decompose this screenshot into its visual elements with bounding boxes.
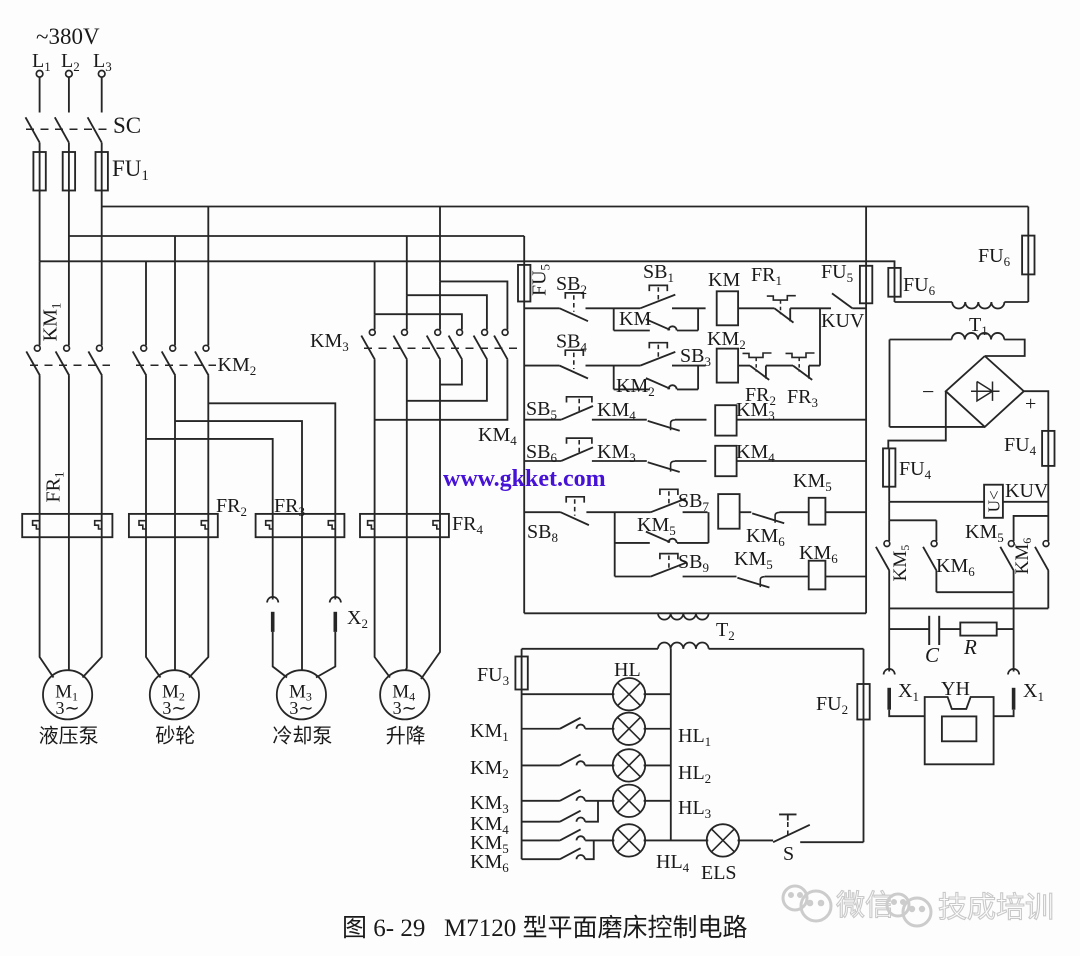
switch S handle <box>779 813 796 815</box>
wire KM2 pole2 through FR2 <box>174 376 176 538</box>
wire FR3 pole3 to connector X2 <box>334 537 336 599</box>
wire bus3 to KM2 pole1 <box>145 261 147 345</box>
svg-text:HL4: HL4 <box>656 851 690 875</box>
chuck contact KM5 right <box>1008 541 1014 547</box>
crossover KM4 pole1 to output3 <box>440 360 462 385</box>
svg-text:KM1: KM1 <box>40 303 64 342</box>
svg-text:KM5: KM5 <box>637 514 676 538</box>
row2 wire rail to SB4 <box>524 365 559 367</box>
seal riser to row1 <box>697 308 699 330</box>
svg-text:KUV: KUV <box>1005 480 1049 502</box>
seal row2 wire to riser <box>677 388 698 390</box>
wire bus1 to KM3 feeder3 <box>439 207 441 282</box>
wire KM1 through FR1 <box>101 376 103 538</box>
control left rail <box>523 302 525 614</box>
feeder3 branch to KM4 pole3 <box>440 281 507 329</box>
FR2 NC contact in row2 <box>743 353 772 357</box>
svg-text:U<: U< <box>985 490 1004 512</box>
wire X1 left to chuck <box>889 710 925 717</box>
HL1 to lamp rail <box>644 728 671 730</box>
wire KM1 through FR1 <box>39 376 41 538</box>
wire FU4 right down <box>1047 466 1049 541</box>
wire bus2 to KM2 pole2 <box>174 236 176 345</box>
transformer T2 primary winding <box>658 613 671 619</box>
feeder1 branch to KM4 pole1 <box>375 314 462 329</box>
wire L2 column fuse to bus2 <box>68 191 70 237</box>
KM5 left bottom wire <box>888 571 890 672</box>
start button SB3 <box>649 343 667 349</box>
row4 wire coil to rail <box>737 460 867 462</box>
svg-text:技成培训: 技成培训 <box>938 891 1054 924</box>
svg-text:SC: SC <box>113 113 141 138</box>
chuck YH coil core <box>942 716 977 741</box>
svg-text:FR4: FR4 <box>452 513 483 537</box>
chuck plus column <box>1013 592 1015 671</box>
row2 wire SB3 to coil KM2 <box>672 365 706 367</box>
connector X2 right <box>330 597 341 603</box>
svg-text:3∼: 3∼ <box>289 698 313 718</box>
coil KM5 <box>718 494 739 529</box>
bridge AC bottom wire <box>890 426 985 428</box>
svg-text:+: + <box>1025 393 1036 415</box>
row1 wire KUV to right rail <box>852 307 866 309</box>
row5 wire coil to KM6 interlock <box>740 511 752 513</box>
indicator lamp HL2 <box>613 749 645 781</box>
seal branch down from row1 <box>613 308 615 330</box>
start button SB7 <box>660 489 678 495</box>
svg-text:KM5: KM5 <box>965 521 1004 545</box>
wire feeder2 to KM3 pole2 <box>406 295 408 329</box>
wire L2 to switch SC <box>68 77 70 112</box>
aux contact KM3 <box>560 790 581 801</box>
row5 wire SB7 to coil KM5 <box>683 511 708 513</box>
wire KM1 through FR1 <box>68 376 70 538</box>
thermal relay FR3 heater box <box>256 514 345 537</box>
KM3 KM4 linkage dashed line <box>364 347 517 349</box>
HL row wire to lamp rail <box>644 693 671 695</box>
fuse FU1 pole 2 <box>63 152 75 191</box>
wire X2 left to motor M3 <box>273 632 287 678</box>
contactor KM4 pole 3 <box>502 330 508 336</box>
svg-text:X1: X1 <box>1023 680 1044 704</box>
aux contact KM5 <box>560 829 581 840</box>
terminal circle L2 <box>66 71 73 78</box>
connector X1 right <box>1008 669 1019 675</box>
stub to KM5 left contact <box>888 520 890 541</box>
wire bus3 to KM3 feeder1 <box>374 261 376 314</box>
row2 wire FR2 to FR3 <box>766 365 793 367</box>
KUV coil row wire <box>889 501 984 503</box>
minus node to KM6 mid wire <box>889 519 936 521</box>
contactor KM1 pole 2 <box>64 345 70 351</box>
electromagnetic chuck YH body <box>925 697 994 764</box>
node Y wire <box>889 607 1048 609</box>
svg-text:ELS: ELS <box>701 862 737 884</box>
stop button SB4 <box>565 350 583 356</box>
tap wire KM2 pole3 to M3 branch <box>208 403 335 537</box>
seal row5 wire to riser <box>677 542 709 544</box>
seal riser to row5 <box>708 512 710 543</box>
KM6 row riser to KM5 row <box>585 840 594 859</box>
wire FR1 pole2 to motor M1 <box>68 537 70 670</box>
row1 wire FR1 to KUV contact <box>790 307 831 309</box>
stub to KM6 mid contact <box>935 520 937 541</box>
svg-text:SB2: SB2 <box>556 273 587 297</box>
row1 wire SB1 to coil KM <box>672 307 706 309</box>
control right rail <box>865 303 867 613</box>
T1 secondary left leg to bridge AC <box>889 340 891 427</box>
contactor KM1 pole 3 <box>97 345 103 351</box>
svg-text:C: C <box>925 643 940 667</box>
FR3 NC contact in row2 <box>786 353 815 357</box>
bus line 3 (bottom phase bus) <box>40 260 896 262</box>
signal lamp ELS <box>707 824 739 856</box>
svg-text:FR1: FR1 <box>751 264 782 288</box>
svg-text:X1: X1 <box>898 680 919 704</box>
HL row wire <box>522 693 615 695</box>
KM6 right bottom wire to node Y <box>1047 571 1049 609</box>
interlock contact KM6 NC <box>752 513 784 523</box>
svg-text:KM6: KM6 <box>936 555 975 579</box>
KM2 linkage dashed line <box>136 364 216 366</box>
control bottom wire <box>524 612 866 614</box>
KM2 row wire to lamp HL2 <box>585 764 614 766</box>
svg-text:SB7: SB7 <box>678 490 709 514</box>
T1 secondary wire left <box>890 339 952 341</box>
connector X2 left <box>267 597 278 603</box>
KM2 lamp row wire <box>522 764 560 766</box>
svg-text:KM: KM <box>619 308 651 330</box>
row3 wire rail to SB5 <box>524 419 561 421</box>
seal row1 wire to riser <box>677 330 698 332</box>
KM5 row wire to lamp HL4 <box>585 839 614 841</box>
wire KM3 output3 through FR4 <box>439 360 441 538</box>
wire FR2 pole2 to motor M2 <box>174 537 176 670</box>
wire SC pole 1 to fuse FU1 <box>39 143 41 152</box>
KM3 row wire to lamp HL3 <box>585 800 614 802</box>
svg-text:KM: KM <box>708 269 740 291</box>
KM6 lamp row wire <box>522 858 560 860</box>
minus output wire <box>888 391 946 448</box>
svg-text:T1: T1 <box>969 314 988 338</box>
tap wire KM2 pole2 to M3 branch <box>175 421 302 537</box>
KM1 lamp row wire <box>522 728 560 730</box>
FR1 NC contact in row1 <box>767 296 796 300</box>
wire bus2 to KM3 feeder2 <box>406 236 408 295</box>
wire C to R <box>939 628 960 630</box>
branch plus to KM5 right contact <box>1014 516 1049 541</box>
KM6 mid bottom wire to node Z <box>935 571 937 592</box>
KM5 right bottom wire to node Z <box>1013 571 1015 592</box>
row5 wire SB8 to SB7 <box>586 511 650 513</box>
minus node branch wire <box>888 502 890 521</box>
row6 wire SB9 to KM5 interlock <box>683 576 737 578</box>
capacitor C <box>889 628 929 630</box>
wire KM3 output2 through FR4 <box>406 360 408 538</box>
wire L1 column fuse to bus3 <box>39 191 41 262</box>
seal riser to row2 <box>697 366 699 390</box>
row1 wire rail to SB2 <box>524 307 559 309</box>
svg-text:T2: T2 <box>716 619 735 643</box>
jog button SB5 <box>567 397 592 403</box>
chuck contact KM5 left <box>884 541 890 547</box>
row6 wire node to SB9 <box>615 576 651 578</box>
transformer T1 secondary winding <box>952 333 965 340</box>
crossover KM4 pole3 to output1 <box>375 360 508 420</box>
KM4 row riser to KM3 row <box>585 801 598 822</box>
svg-text:KUV: KUV <box>821 310 865 332</box>
wire FR4 pole3 to motor M4 <box>421 537 440 679</box>
thermal relay FR4 heater box <box>360 514 449 537</box>
row3 wire SB5 to KM4 interlock <box>592 419 647 421</box>
svg-text:HL2: HL2 <box>678 762 711 786</box>
row6 wire to coil KM6 <box>765 576 809 578</box>
motor M4 lift <box>380 670 429 719</box>
seal contact KM5 <box>646 532 670 543</box>
wire bus1 to KM1 pole3 <box>101 207 103 346</box>
seal row1 wire <box>614 330 650 332</box>
row4 wire rail to SB6 <box>524 460 561 462</box>
stop button SB8 <box>566 497 584 503</box>
stop button SB2 <box>565 293 583 299</box>
switch SC linkage dashed line <box>26 128 112 130</box>
contactor KM4 pole 2 <box>482 330 488 336</box>
fuse FU5 left rail <box>518 265 530 302</box>
lamp right supply rail <box>863 649 865 684</box>
T2 secondary wire right <box>709 648 864 650</box>
svg-text:FU1: FU1 <box>112 156 149 184</box>
wire bus1 end to fuse FU6 right <box>1027 207 1029 236</box>
svg-text:SB9: SB9 <box>678 551 709 575</box>
resistor R <box>960 623 996 636</box>
contactor KM3 pole 3 <box>435 330 441 336</box>
wire bus1 to KM2 pole3 <box>207 207 209 346</box>
coil KM <box>717 291 738 325</box>
coil KM2 <box>717 349 738 383</box>
wire FR3 pole1 to connector X2 <box>272 537 274 599</box>
switch SC blade pole 2 <box>55 117 69 142</box>
aux contact KM1 <box>560 718 581 729</box>
svg-text:KM2: KM2 <box>470 757 509 781</box>
thermal relay FR1 heater box <box>22 514 112 537</box>
KM1 linkage dashed line <box>30 364 110 366</box>
wire bus2 end down to fuse FU5 left <box>523 236 525 265</box>
contactor KM3 pole 2 <box>402 330 408 336</box>
lamp right rail <box>670 649 672 841</box>
wire bus2 to KM1 pole2 <box>68 236 70 345</box>
wire FR4 pole2 to motor M4 <box>406 537 407 670</box>
row6 wire coil to rail <box>825 576 866 578</box>
indicator lamp HL <box>613 678 645 710</box>
contactor KM3 pole 1 <box>369 330 375 336</box>
fuse FU4 left <box>883 448 895 486</box>
KM1 row wire to lamp HL1 <box>585 728 614 730</box>
undervoltage relay KUV coil <box>984 485 1003 518</box>
wire KM2 pole1 through FR2 <box>145 376 147 538</box>
wire KM2 pole3 through FR2 <box>207 376 209 538</box>
KM5 lamp row wire <box>522 839 560 841</box>
bus line 1 (top phase bus) <box>102 206 1029 208</box>
svg-text:SB5: SB5 <box>526 398 557 422</box>
wire FU6 right to T1 <box>1027 274 1029 302</box>
wire bus3 to KM1 pole1 <box>39 261 41 345</box>
motor M3 cooling pump <box>277 670 326 719</box>
contactor KM2 pole 3 <box>203 345 209 351</box>
svg-text:升降: 升降 <box>386 724 426 747</box>
svg-text:FU4: FU4 <box>899 458 932 482</box>
jog button SB9 <box>660 554 678 560</box>
wire L3 column fuse to bus1 <box>101 191 103 207</box>
wechat watermark bubbles 2 <box>887 894 931 926</box>
HL4 row wire to ELS <box>644 839 709 841</box>
KUV NO contact <box>832 293 852 308</box>
wire bus1 down to fuse FU5 right <box>865 207 867 266</box>
fuse FU5 right rail <box>860 266 872 304</box>
KM4 lamp row wire <box>522 821 560 823</box>
branch down from row5 node <box>614 512 616 576</box>
KUV coil to plus rail wire <box>1003 501 1048 503</box>
HL2 to lamp rail <box>644 764 671 766</box>
wire L1 to switch SC <box>39 77 41 112</box>
fuse FU4 right <box>1042 431 1054 466</box>
tap wire KM2 pole1 to M3 branch <box>146 439 273 537</box>
row5 wire coil KM5b to rail <box>825 511 866 513</box>
indicator lamp HL3 <box>613 785 645 817</box>
svg-text:M7120 型平面磨床控制电路: M7120 型平面磨床控制电路 <box>444 914 747 942</box>
svg-text:HL3: HL3 <box>678 797 711 821</box>
svg-text:微信: 微信 <box>836 889 894 922</box>
svg-text:3∼: 3∼ <box>162 698 186 718</box>
svg-text:S: S <box>783 843 794 865</box>
indicator lamp HL4 <box>613 824 645 856</box>
wire FU6 left to T1 <box>894 297 896 302</box>
svg-text:FR3: FR3 <box>274 495 305 519</box>
row2 wire SB4 to SB3 <box>586 365 641 367</box>
svg-text:FR2: FR2 <box>216 495 247 519</box>
wire X2 right to motor M3 <box>316 632 335 678</box>
coil KM3 <box>715 405 736 435</box>
aux contact KM2 <box>560 754 581 765</box>
row3 wire coil to rail <box>737 419 867 421</box>
svg-text:FU5: FU5 <box>821 261 853 285</box>
wire feeder3 to KM3 pole3 <box>439 281 441 329</box>
start button SB1 <box>649 285 667 291</box>
svg-text:KM5: KM5 <box>734 548 773 572</box>
switch SC blade pole 3 <box>88 117 102 142</box>
aux contact KM4 <box>560 811 581 822</box>
row2 wire coil to FR2 contact <box>738 365 750 367</box>
svg-text:3∼: 3∼ <box>393 698 417 718</box>
chuck contact KM6 mid <box>931 541 937 547</box>
svg-text:KM6: KM6 <box>1012 538 1034 575</box>
HL3 to lamp rail <box>644 800 671 802</box>
wire S to FU2 rail <box>800 841 863 843</box>
svg-text:KM6: KM6 <box>746 525 785 549</box>
row5 wire to coil KM5b <box>780 511 809 513</box>
transformer T2 secondary winding <box>658 642 671 648</box>
wire X1 right to chuck <box>994 710 1014 717</box>
row4 wire SB6 to KM3 interlock <box>592 460 647 462</box>
svg-text:SB8: SB8 <box>527 521 558 545</box>
KM3 lamp row wire <box>522 800 560 802</box>
coil KM4 <box>715 446 736 476</box>
svg-text:KM1: KM1 <box>470 720 509 744</box>
svg-text:KM3: KM3 <box>310 330 349 354</box>
feeder2 branch to KM4 pole2 <box>407 295 487 329</box>
svg-text:KM4: KM4 <box>478 424 517 448</box>
wire FR1 pole1 to motor M1 <box>40 537 54 677</box>
interlock contact KM3 NC <box>648 462 680 472</box>
seal row2 wire <box>614 388 650 390</box>
wire FR2 pole3 to motor M2 <box>189 537 208 677</box>
terminal circle L3 <box>98 71 105 78</box>
bridge rectifier diamond <box>946 356 1024 427</box>
seal row5 wire <box>615 542 650 544</box>
row1 wire coil to FR1 contact <box>738 307 774 309</box>
terminal circle L1 <box>36 71 43 78</box>
contactor KM2 pole 1 <box>141 345 147 351</box>
wechat watermark bubbles 1 <box>783 886 831 921</box>
seal contact KM2 <box>646 378 670 389</box>
svg-text:液压泵: 液压泵 <box>39 724 99 747</box>
transformer T1 primary wire <box>895 301 953 303</box>
indicator lamp HL1 <box>613 713 645 745</box>
fuse FU1 pole 3 <box>96 152 108 191</box>
svg-text:KM5: KM5 <box>793 470 832 494</box>
interlock contact KM4 NC <box>648 421 680 431</box>
svg-text:3∼: 3∼ <box>56 698 80 718</box>
row2 wire FR3 to riser <box>809 365 820 367</box>
connector X1 left <box>884 669 895 675</box>
svg-text:KM4: KM4 <box>597 399 636 423</box>
svg-text:FU3: FU3 <box>477 664 509 688</box>
row5 wire rail to SB8 <box>524 511 560 513</box>
wire FU4 left to KUV row <box>888 487 890 502</box>
wire KM3 output1 through FR4 <box>374 360 376 538</box>
node Z wire <box>936 591 1013 593</box>
chuck contact KM6 right <box>1043 541 1049 547</box>
svg-text:砂轮: 砂轮 <box>155 724 195 747</box>
wire L3 to switch SC <box>101 77 103 112</box>
svg-text:SB1: SB1 <box>643 261 674 285</box>
wire R to plus column <box>997 628 1014 630</box>
contactor KM4 pole 1 <box>457 330 463 336</box>
svg-text:−: − <box>922 379 934 404</box>
seal branch down from row2 <box>613 366 615 390</box>
wire FR1 pole3 to motor M1 <box>83 537 102 677</box>
svg-text:KM5: KM5 <box>890 545 912 582</box>
fuse FU1 pole 1 <box>33 152 45 191</box>
plus output wire <box>1024 391 1049 431</box>
svg-text:FU5: FU5 <box>529 264 553 296</box>
wire SC pole 2 to fuse FU1 <box>68 143 70 152</box>
lamp rail down from T2 <box>521 649 523 657</box>
contactor KM2 pole 2 <box>170 345 176 351</box>
svg-text:X2: X2 <box>347 607 368 631</box>
svg-text:KM3: KM3 <box>597 441 636 465</box>
svg-text:HL1: HL1 <box>678 725 711 749</box>
svg-text:HL: HL <box>614 659 641 681</box>
seal contact KM <box>646 319 670 330</box>
fuse FU6 left <box>888 268 900 297</box>
svg-text:FR1: FR1 <box>43 472 67 503</box>
motor M2 grinding wheel <box>150 670 199 719</box>
svg-text:SB4: SB4 <box>556 331 587 355</box>
wire ELS to switch S <box>738 839 774 841</box>
svg-text:FU6: FU6 <box>978 245 1011 269</box>
svg-text:FR3: FR3 <box>787 386 818 410</box>
jog button SB6 <box>567 438 592 444</box>
